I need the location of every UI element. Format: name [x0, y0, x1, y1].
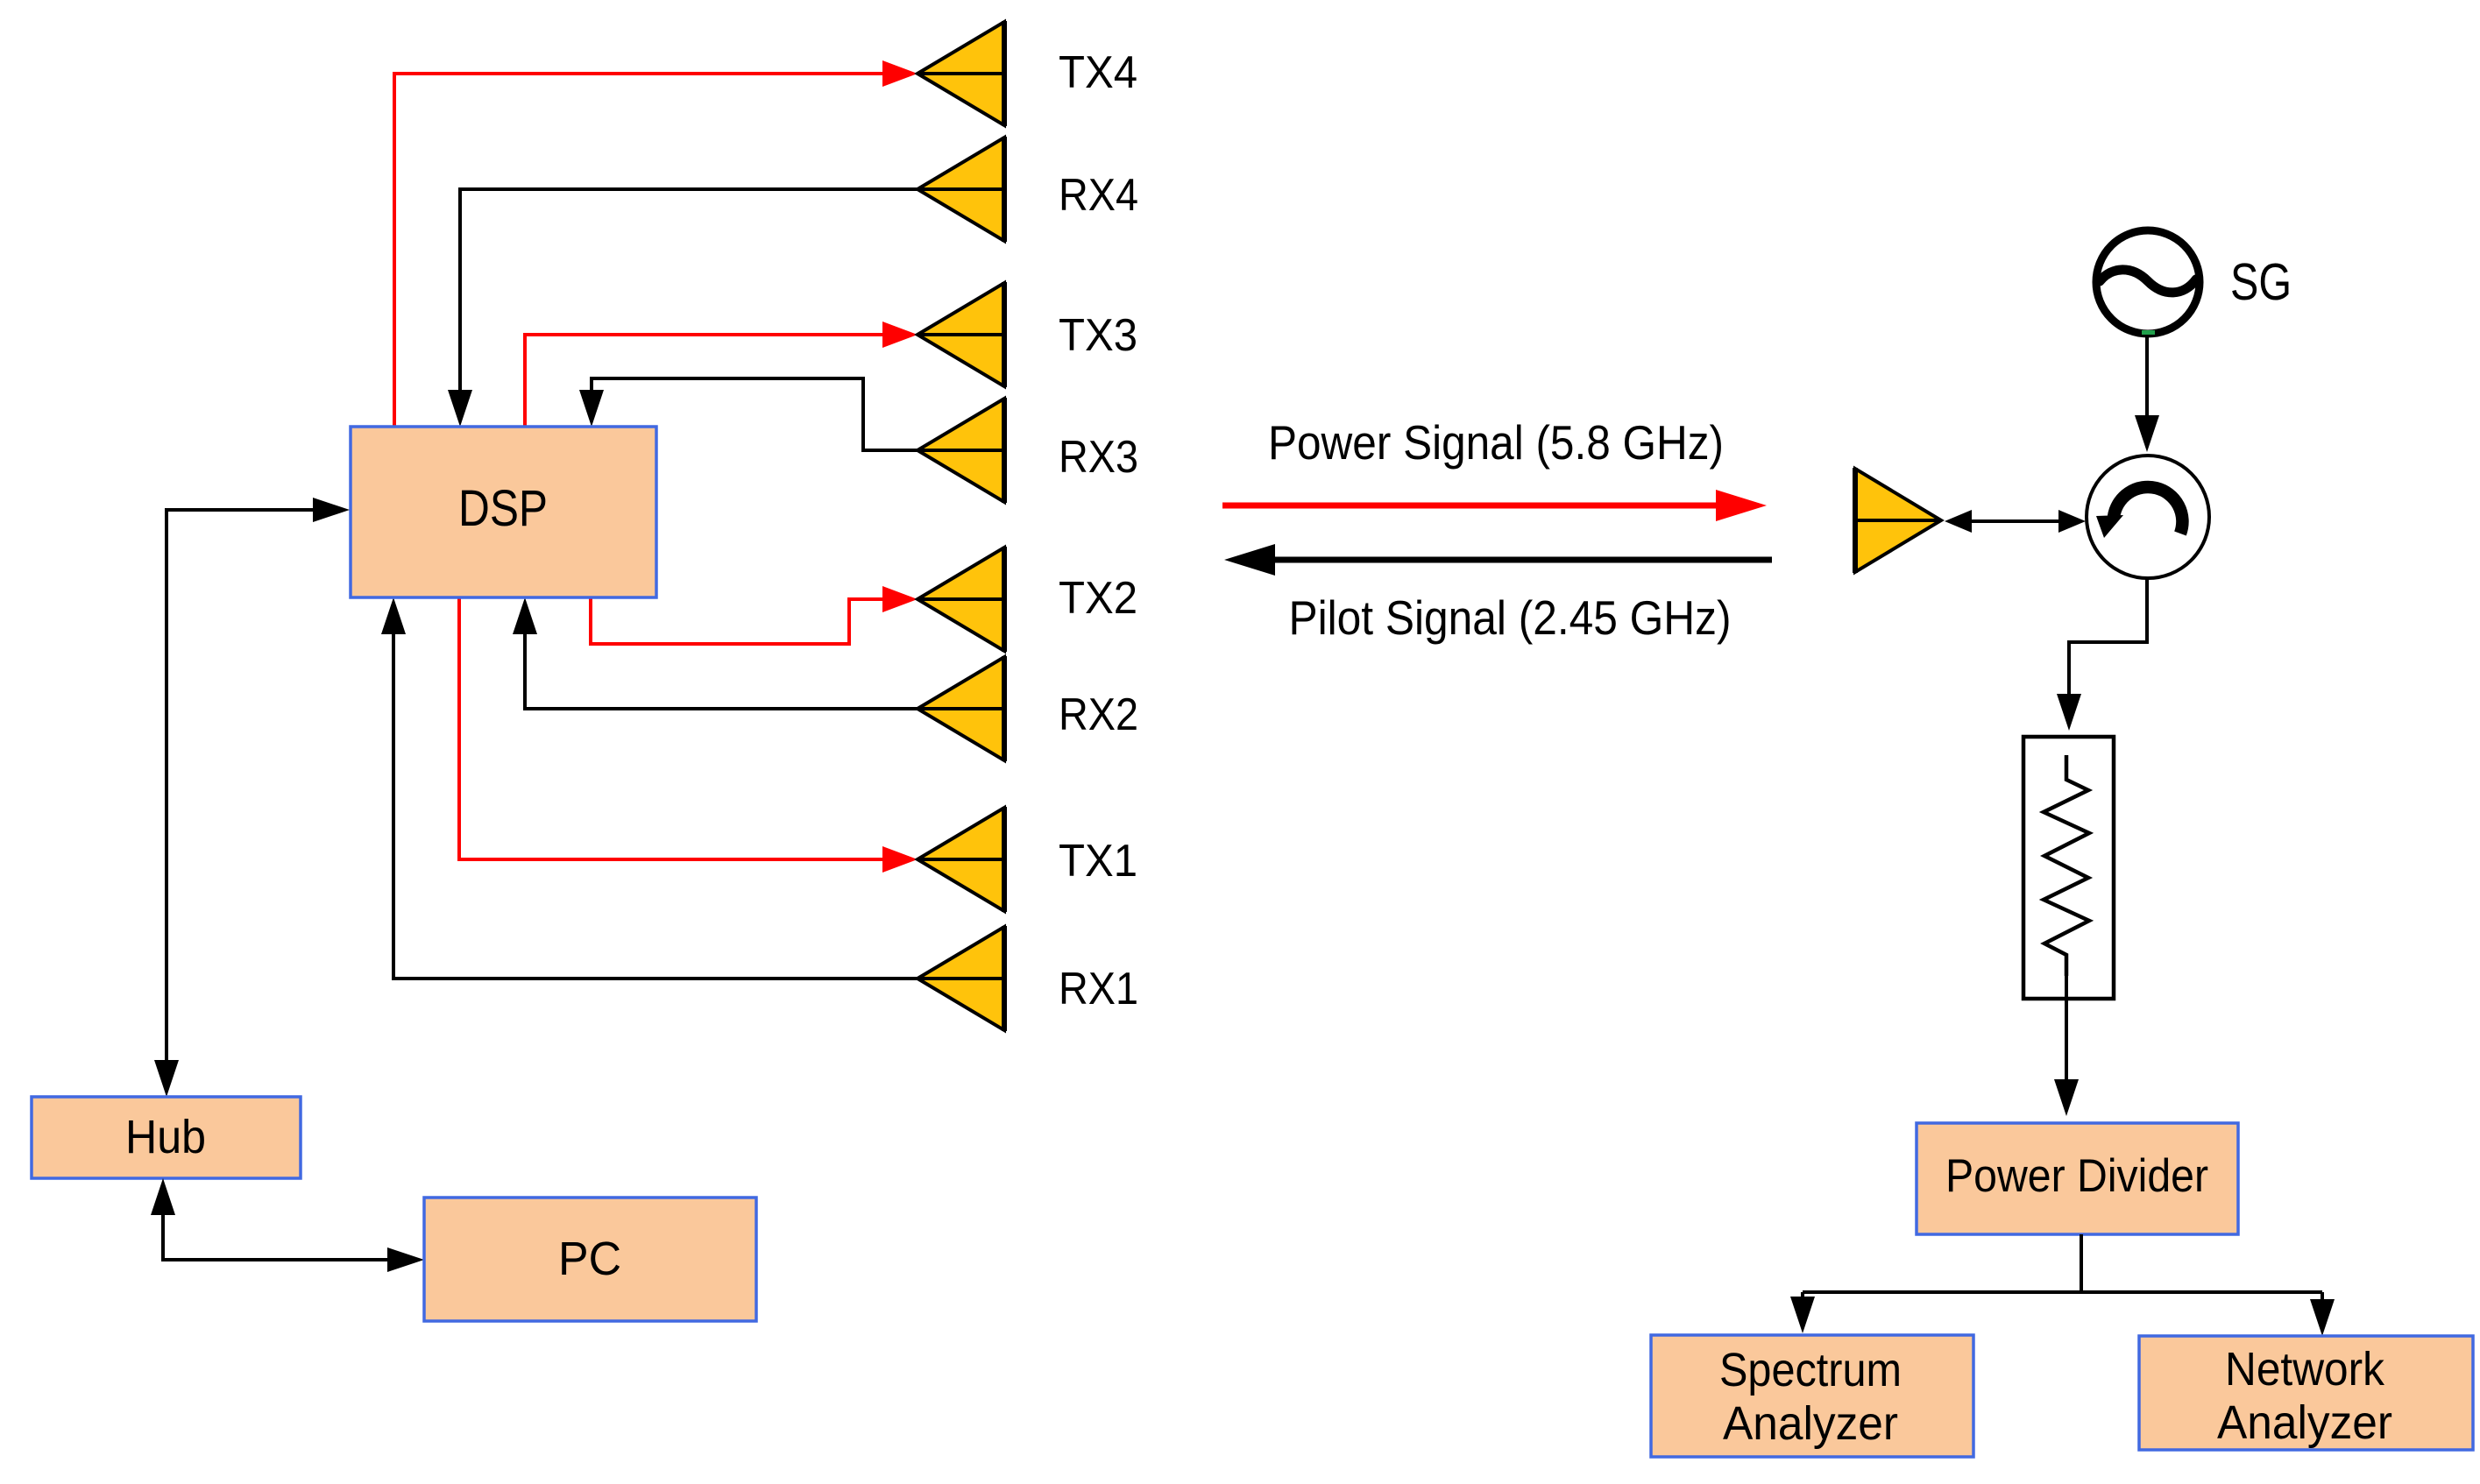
- svg-text:TX3: TX3: [1059, 310, 1137, 361]
- antenna TX1: [918, 807, 1004, 912]
- Spectrum Analyzer block: [1651, 1335, 1973, 1457]
- svg-text:Analyzer: Analyzer: [1723, 1397, 1898, 1450]
- antenna RX4: [918, 137, 1004, 242]
- svg-text:DSP: DSP: [458, 480, 548, 537]
- antenna TX3: [918, 282, 1004, 387]
- power signal arrow (red): [1222, 490, 1767, 521]
- Power Divider block: [1917, 1123, 2238, 1234]
- wire TX3 feed (red, DSP top to TX3): [525, 322, 918, 427]
- antenna RX3: [918, 398, 1004, 503]
- svg-text:SG: SG: [2230, 253, 2292, 311]
- Network Analyzer block: [2139, 1336, 2473, 1450]
- pilot signal arrow (black): [1224, 544, 1772, 576]
- svg-text:RX2: RX2: [1059, 689, 1138, 740]
- Hub block: [32, 1097, 301, 1178]
- svg-text:RX3: RX3: [1059, 432, 1138, 483]
- svg-text:TX2: TX2: [1059, 573, 1137, 624]
- svg-text:Power Signal (5.8 GHz): Power Signal (5.8 GHz): [1268, 415, 1724, 470]
- wire TX4 feed (red, DSP top to TX4): [394, 60, 918, 427]
- svg-text:Hub: Hub: [125, 1111, 206, 1163]
- DSP block: [351, 427, 656, 597]
- wire RX4 (black, RX4 to DSP top): [448, 189, 918, 427]
- SG connection anchor (green): [2142, 330, 2155, 335]
- svg-text:Analyzer: Analyzer: [2217, 1396, 2392, 1449]
- wire attenuator to power divider: [2054, 976, 2079, 1116]
- signal generator SG: [2096, 230, 2200, 334]
- wire DSP-Hub (bidirectional): [154, 498, 350, 1097]
- antenna RX1: [918, 926, 1004, 1031]
- relay antenna: [1855, 468, 1941, 573]
- antenna TX2: [918, 547, 1004, 652]
- PC block: [424, 1198, 756, 1321]
- wire relay antenna to circulator (bidirectional): [1945, 510, 2086, 533]
- svg-text:RX4: RX4: [1059, 170, 1138, 221]
- svg-text:Network: Network: [2225, 1343, 2385, 1396]
- wire RX1 (black, RX1 to DSP bottom): [381, 597, 918, 979]
- svg-text:RX1: RX1: [1059, 964, 1138, 1014]
- circulator: [2087, 456, 2209, 578]
- wire circulator to attenuator: [2057, 578, 2147, 731]
- wire Hub-PC (bidirectional): [151, 1178, 424, 1272]
- wire power divider to analyzers (splitter): [1790, 1234, 2335, 1336]
- antenna RX2: [918, 656, 1004, 761]
- wire TX1 feed (red, DSP bottom to TX1): [459, 597, 918, 873]
- svg-text:Spectrum: Spectrum: [1719, 1344, 1902, 1396]
- wire SG to circulator: [2135, 335, 2159, 452]
- svg-text:Pilot Signal (2.45 GHz): Pilot Signal (2.45 GHz): [1289, 590, 1732, 645]
- wire TX2 feed (red, DSP bottom to TX2): [591, 586, 918, 644]
- antenna TX4: [918, 21, 1004, 126]
- svg-text:Power Divider: Power Divider: [1945, 1150, 2208, 1202]
- svg-text:TX4: TX4: [1059, 47, 1137, 98]
- wire RX3 (black, RX3 to DSP top): [579, 378, 918, 450]
- attenuator (resistor in box): [2023, 737, 2114, 999]
- svg-text:PC: PC: [558, 1233, 621, 1285]
- wire RX2 (black, RX2 to DSP bottom): [513, 597, 918, 709]
- svg-text:TX1: TX1: [1059, 836, 1137, 887]
